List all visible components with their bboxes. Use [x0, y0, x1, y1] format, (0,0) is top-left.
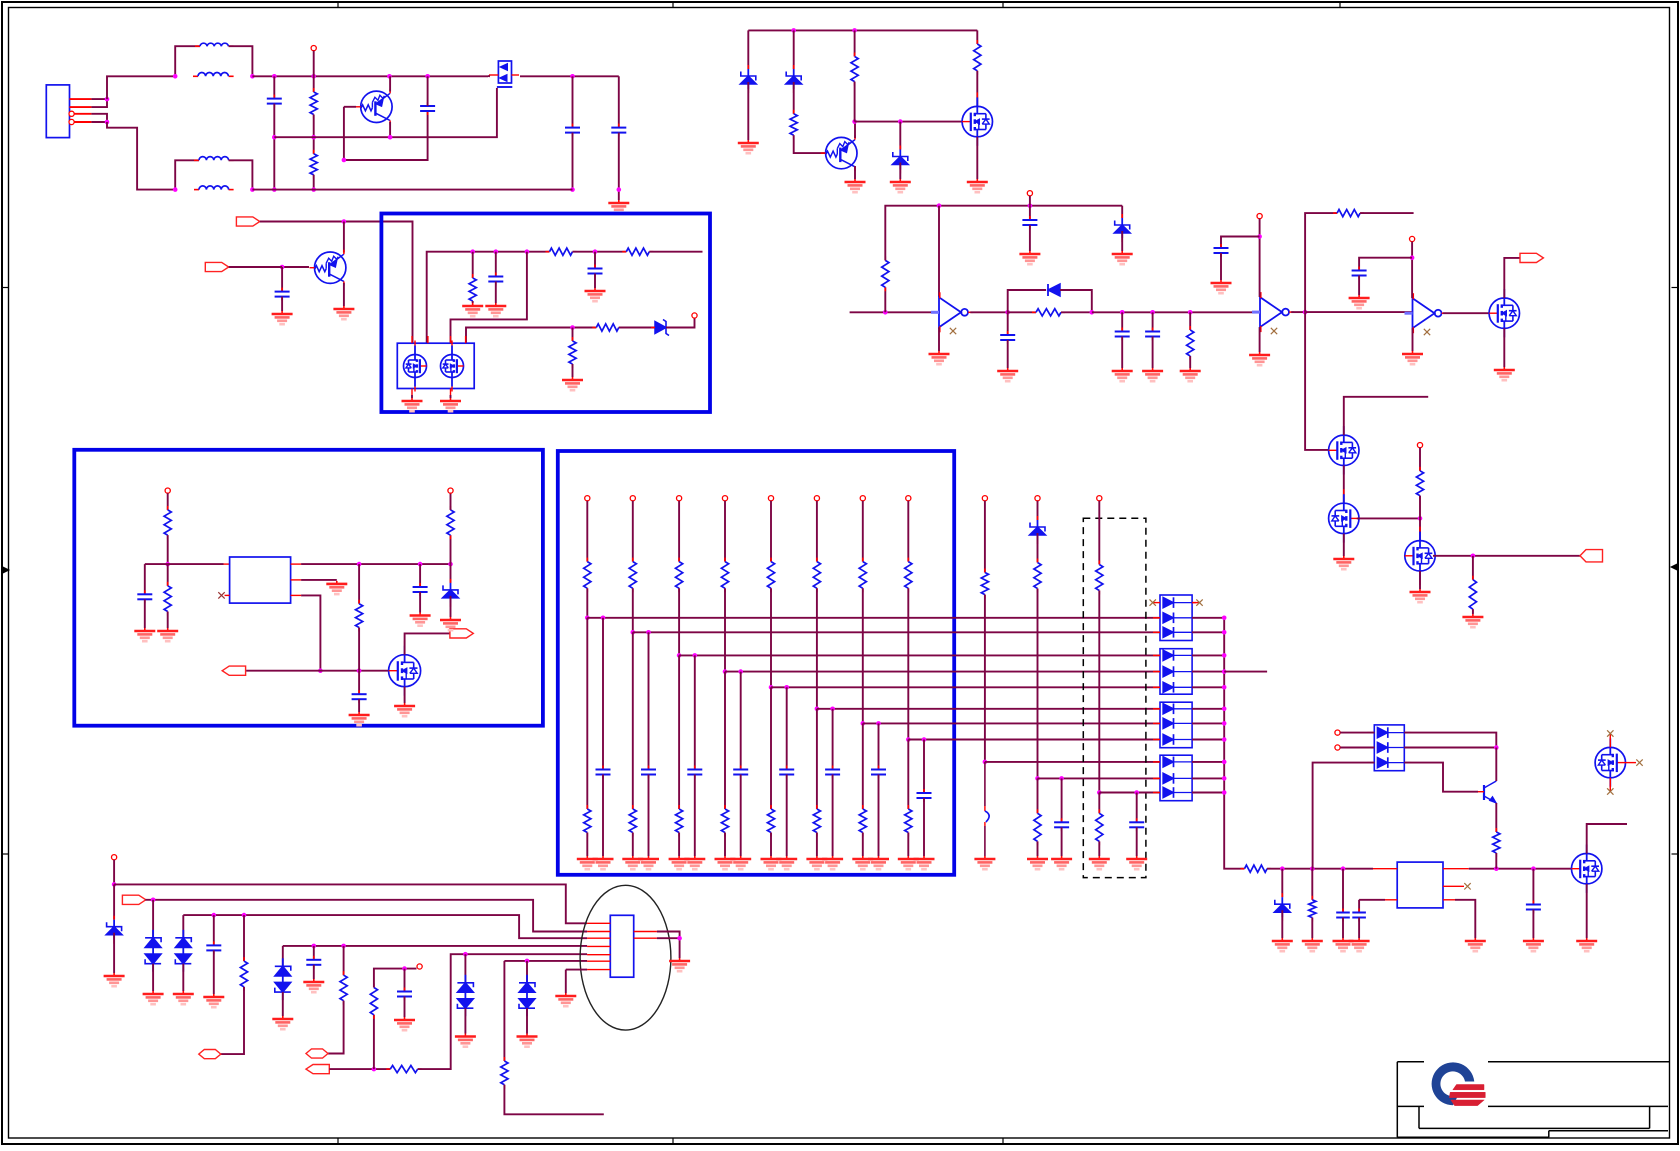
wire Z2 top — [793, 30, 795, 69]
ground — [890, 179, 911, 192]
TVS DS5 — [519, 975, 535, 1016]
junction — [631, 630, 636, 635]
x-mark — [1464, 883, 1470, 889]
resistor RA6 — [813, 558, 820, 593]
IC U3 — [230, 557, 291, 603]
pin — [112, 855, 117, 860]
wire Q4 collector — [1495, 748, 1497, 782]
wire U5 right pin2 — [657, 937, 680, 939]
resistor RB3 — [676, 805, 683, 837]
wire col top — [770, 501, 772, 562]
wire tap — [725, 671, 1160, 673]
wire J1 pins 1-2 tie — [91, 99, 107, 107]
wire cap branch — [602, 618, 604, 770]
junction — [1303, 310, 1308, 315]
ground — [402, 398, 423, 411]
wire C13 gnd — [1358, 276, 1360, 296]
ground — [349, 712, 370, 725]
capacitor C22 — [397, 988, 412, 1001]
capacitor CA7 — [871, 766, 886, 779]
ground — [1272, 938, 1293, 951]
wire DS2 top — [182, 915, 184, 938]
ground — [272, 311, 293, 324]
zener Z4 — [1114, 214, 1130, 242]
wire box1 bus left leg — [427, 252, 550, 343]
wire R25 to port — [328, 1001, 344, 1054]
wire col top — [678, 501, 680, 562]
wire C9 gnd — [1007, 340, 1009, 368]
J1 pin stubs — [70, 99, 92, 122]
junction — [1531, 866, 1536, 871]
resistor R10 — [974, 40, 981, 75]
wire C21 gnd — [313, 965, 315, 979]
wire colC mid — [1098, 591, 1100, 793]
wire pack stub — [1192, 631, 1224, 633]
wire P4 line — [329, 1068, 390, 1070]
junction — [815, 707, 820, 712]
junction — [112, 882, 117, 887]
wire pack stub — [1192, 792, 1224, 794]
wire colC low — [1098, 793, 1100, 814]
ground — [715, 856, 736, 869]
wire Z8 top — [113, 884, 115, 919]
wire bus to FET pin3 — [451, 252, 527, 343]
pin — [448, 488, 453, 493]
capacitor C9 — [1000, 331, 1015, 344]
wire inv3 gnd — [1412, 328, 1414, 351]
wire tap — [587, 617, 1160, 619]
wire pin-R17 — [167, 493, 169, 510]
junction — [388, 135, 393, 140]
wire M6 drain — [405, 633, 450, 654]
wire C7 gnd — [594, 274, 596, 289]
wire R13 gnd — [1189, 356, 1191, 368]
junction — [617, 187, 622, 192]
ground — [845, 179, 866, 192]
zener Z6 — [1030, 516, 1046, 544]
junction — [1120, 310, 1125, 315]
wire colB low — [1037, 778, 1039, 813]
wire rail2 — [252, 189, 572, 191]
wire cap branch — [786, 687, 788, 769]
wire PA to box1 — [260, 222, 413, 344]
wire R12 left — [1008, 311, 1036, 313]
junction — [311, 74, 316, 79]
wire M4 source — [1586, 884, 1588, 938]
wire R18 gnd — [167, 612, 169, 629]
junction — [272, 74, 277, 79]
wire L1 to right leg — [229, 46, 253, 76]
wire C12 gnd — [1220, 253, 1222, 280]
wire tap10 — [1038, 777, 1161, 779]
resistor RA4 — [721, 558, 728, 593]
wire lineF — [504, 960, 587, 962]
wire C2 top — [427, 76, 429, 106]
wire DP5 r2 left — [1340, 747, 1374, 749]
resistor RB2 — [629, 805, 636, 837]
wire col mid — [770, 588, 772, 687]
no-connect pin above R1 — [311, 46, 316, 51]
wire col gnd — [632, 833, 634, 857]
logo — [1424, 1053, 1488, 1108]
transistor Q2 — [310, 250, 346, 286]
wire R17 to node — [167, 535, 169, 564]
capacitor C4 — [565, 124, 580, 137]
wire rail1 — [274, 88, 497, 137]
wire cap gnd — [648, 775, 650, 857]
wire tap — [771, 686, 1160, 688]
zener D1 — [651, 320, 670, 336]
junction — [1471, 554, 1476, 559]
wire R5 top — [472, 252, 474, 278]
wire Q1 base down — [344, 107, 428, 160]
capacitor CA3 — [687, 766, 702, 779]
capacitor CB1 — [1054, 818, 1069, 831]
junction — [601, 616, 606, 621]
wire C22 top — [404, 969, 406, 992]
wire C18 top — [1358, 900, 1360, 913]
junction — [922, 737, 927, 742]
ground — [173, 991, 194, 1004]
capacitor C14 — [137, 590, 152, 603]
wire C5 top — [618, 76, 620, 127]
ground — [914, 856, 935, 869]
junction — [311, 135, 316, 140]
junction — [1059, 776, 1064, 781]
junction — [1257, 234, 1262, 239]
wire R11 top to bus — [885, 206, 1122, 261]
wire col gnd — [770, 833, 772, 857]
dashed box — [1083, 518, 1146, 877]
wire col gnd — [586, 833, 588, 857]
resistor R5 — [469, 274, 476, 305]
ground — [761, 856, 782, 869]
junction — [570, 325, 575, 330]
port PA2 — [122, 895, 145, 904]
wire cap gnd — [740, 775, 742, 857]
ground — [1112, 251, 1133, 264]
transistor Q3 — [821, 135, 857, 171]
ground — [485, 303, 506, 316]
wire node to M7 gate — [855, 121, 963, 123]
wire M8 drain — [1504, 258, 1520, 298]
capacitor CA4 — [733, 766, 748, 779]
ground — [776, 856, 797, 869]
wire col low — [862, 723, 864, 809]
wire lineD — [283, 945, 587, 947]
ground — [868, 856, 889, 869]
wire DS3 top — [282, 946, 284, 966]
wire Z3 top — [899, 122, 901, 150]
wire R11 bottom — [884, 287, 886, 312]
resistor R11 — [882, 256, 889, 291]
junction — [494, 249, 499, 254]
mosfet M6 — [389, 641, 421, 701]
wire C7 top — [594, 252, 596, 269]
wire C4 bottom — [572, 133, 574, 190]
wire inv1 input — [850, 311, 938, 313]
capacitor CA5 — [779, 766, 794, 779]
junction — [318, 668, 323, 673]
resistor R19 — [356, 600, 363, 632]
wire port line — [246, 670, 388, 672]
ground — [1302, 938, 1323, 951]
connector J1 — [46, 85, 69, 138]
wire DS5 gnd — [526, 1008, 528, 1033]
jumper/switch W1 — [985, 762, 989, 856]
wire col gnd — [816, 833, 818, 857]
ground — [440, 398, 461, 411]
junction — [769, 685, 774, 690]
ground — [1051, 856, 1072, 869]
wire C1 top — [273, 76, 275, 98]
wire pin4 to rail2 — [107, 122, 175, 190]
resistor RA5 — [767, 558, 774, 593]
wire lineA — [114, 884, 587, 923]
wire pack stub — [1192, 739, 1224, 741]
ground — [1349, 938, 1370, 951]
resistor RA1 — [584, 558, 591, 593]
wire Z4 gnd — [1121, 231, 1123, 251]
wire bus mid — [573, 251, 627, 253]
wire U5 pin7 gnd — [566, 969, 587, 971]
wire R19 bottom — [358, 628, 360, 671]
wire to C13 — [1359, 258, 1412, 271]
junction — [470, 249, 475, 254]
wire CB cap branch — [1061, 778, 1063, 822]
ground — [517, 1034, 538, 1047]
wire R22 gnd — [1311, 918, 1313, 938]
wire col low — [907, 740, 909, 810]
U1 pin stubs — [412, 336, 466, 395]
x-mark — [218, 592, 224, 598]
resistor RC4 — [1096, 561, 1103, 595]
mosfet M0 — [489, 61, 519, 87]
wire C19 top — [1532, 869, 1534, 905]
wire pin to R15 — [1419, 448, 1421, 471]
wire cap gnd — [832, 775, 834, 857]
x-mark — [950, 328, 956, 334]
wire Q1 base — [344, 106, 356, 108]
wire cap gnd — [923, 798, 925, 856]
capacitor CA1 — [596, 766, 611, 779]
wire pack stub — [1192, 654, 1224, 656]
wire R10 to M7 — [976, 71, 978, 107]
wire tap — [633, 631, 1160, 633]
wire C9 top — [1007, 312, 1009, 335]
zener Z5 — [443, 579, 459, 607]
ground — [134, 628, 155, 641]
IC U5 — [610, 915, 633, 977]
wire cap branch — [832, 709, 834, 770]
diode pack DP1 — [1153, 595, 1199, 641]
ground — [410, 613, 431, 626]
resistor R3 — [546, 248, 577, 255]
wire top bus segment A — [252, 75, 488, 77]
no-connect pin — [692, 313, 697, 318]
junction — [937, 203, 942, 208]
resistor RC5 — [1096, 809, 1103, 845]
wire tr bus — [748, 29, 977, 31]
junction — [585, 616, 590, 621]
junction — [1310, 866, 1315, 871]
wire loop L1 frame — [175, 46, 200, 76]
x-mark — [1150, 599, 1156, 605]
wire Q3 emitter — [854, 166, 856, 179]
ground — [622, 856, 643, 869]
ground — [562, 377, 583, 390]
U5 pin stubs — [587, 923, 657, 969]
capacitor CA8 — [917, 789, 932, 802]
no-connect pin — [1417, 443, 1422, 448]
ground — [730, 856, 751, 869]
wire col gnd — [724, 833, 726, 857]
TVS DS4 — [457, 975, 473, 1016]
wire R9 bottom — [854, 82, 856, 122]
wire Q2 collector up — [343, 222, 345, 253]
wire cap branch — [923, 740, 925, 794]
J1 pin3 circle — [69, 111, 74, 116]
transistor Q1 — [356, 89, 392, 125]
resistor R4 — [622, 248, 653, 255]
wire M8 source — [1503, 328, 1505, 367]
wire col mid — [586, 588, 588, 618]
wire M1-M2 — [1343, 466, 1345, 504]
wire Q2 base — [282, 266, 309, 268]
ground — [638, 856, 659, 869]
ground — [806, 856, 827, 869]
junction — [448, 562, 453, 567]
wire U4 out gnd — [1455, 900, 1475, 938]
ground — [1142, 368, 1163, 381]
resistor RA8 — [905, 558, 912, 593]
inductor L2 — [193, 73, 234, 77]
wire R1a-R1b — [313, 115, 315, 154]
wire C8 gnd — [1029, 225, 1031, 251]
wire R8 to Q3 base — [794, 135, 825, 153]
junction — [1222, 653, 1227, 658]
resistor R12 — [1032, 309, 1065, 316]
capacitor C11 — [1145, 328, 1160, 341]
wire pin to R1a — [313, 51, 315, 92]
wire tap — [908, 739, 1160, 741]
wire DP5 r2 right — [1404, 747, 1496, 749]
wire R7 top — [572, 328, 574, 342]
resistor RA3 — [676, 558, 683, 593]
junction — [1280, 866, 1285, 871]
junction — [738, 669, 743, 674]
wire col top — [586, 501, 588, 562]
junction — [250, 74, 255, 79]
wire R20 bottom — [450, 535, 452, 564]
ground — [326, 581, 347, 594]
wire cap gnd — [878, 775, 880, 857]
TVS DS3 — [275, 958, 291, 1000]
x-mark — [1607, 788, 1613, 794]
wire P4 line b — [418, 954, 587, 1069]
wire DS4 top — [464, 954, 466, 983]
wire R24 top — [243, 915, 245, 961]
port PL2 — [222, 666, 245, 675]
wire col low — [816, 709, 818, 809]
J1 pin4 circle — [69, 119, 74, 124]
junction — [418, 562, 423, 567]
resistor R27 — [370, 984, 377, 1019]
ground — [1211, 280, 1232, 293]
wire M4 drain — [1587, 824, 1627, 854]
junction — [646, 630, 651, 635]
junction — [1134, 790, 1139, 795]
wire pin1 to top bus — [107, 76, 175, 99]
wire bus right — [649, 251, 702, 253]
wire R16 gnd — [1472, 609, 1474, 614]
wire DS3 gnd — [282, 992, 284, 1016]
x-mark — [1424, 329, 1430, 335]
pin — [585, 496, 590, 501]
junction — [1418, 516, 1423, 521]
junction — [1222, 721, 1227, 726]
ground — [1180, 368, 1201, 381]
DP1 row1 right stub — [1192, 602, 1196, 604]
junction — [1097, 790, 1102, 795]
wire col gnd — [678, 833, 680, 857]
wire pack stub — [1192, 722, 1224, 724]
pin — [677, 496, 682, 501]
junction — [1028, 203, 1033, 208]
wire Q1 collector — [389, 76, 391, 91]
wire colB z-r — [1037, 533, 1039, 563]
wire U4 left-bot — [1359, 899, 1385, 901]
wire inv3 vcc — [1411, 242, 1413, 298]
wire R27 chain — [373, 1015, 375, 1069]
pin — [722, 496, 727, 501]
block box B1 — [381, 214, 710, 413]
wire IC1 out — [301, 563, 450, 565]
resistor R25 — [340, 971, 347, 1005]
resistor R1 — [310, 88, 317, 119]
junction — [250, 187, 255, 192]
junction — [1494, 866, 1499, 871]
ground — [1333, 556, 1354, 569]
wire D1 to pin — [666, 318, 695, 328]
junction — [425, 74, 430, 79]
wire DP5 r1 right — [1404, 733, 1496, 748]
resistor RB5 — [767, 805, 774, 837]
mosfet M1 — [1329, 421, 1359, 479]
junction — [1222, 707, 1227, 712]
wire Q2 emitter — [343, 283, 345, 306]
ground — [272, 1016, 293, 1029]
junction — [1222, 685, 1227, 690]
ground — [1465, 938, 1486, 951]
wire col mid — [907, 588, 909, 739]
wire DS1 gnd — [152, 964, 154, 991]
M5 stubs — [1610, 737, 1636, 788]
ground — [1576, 938, 1597, 951]
wire C17 top — [1342, 869, 1344, 913]
resistor R18 — [164, 582, 171, 616]
ground — [143, 991, 164, 1004]
ground — [1410, 589, 1431, 602]
wire Z1 gnd — [747, 82, 749, 140]
ground — [585, 288, 606, 301]
junction — [693, 653, 698, 658]
wire colC gnd — [1098, 841, 1100, 856]
wire inv2 vcc — [1259, 219, 1261, 297]
capacitor C7 — [588, 265, 603, 278]
junction — [876, 721, 881, 726]
wire col mid — [816, 588, 818, 709]
